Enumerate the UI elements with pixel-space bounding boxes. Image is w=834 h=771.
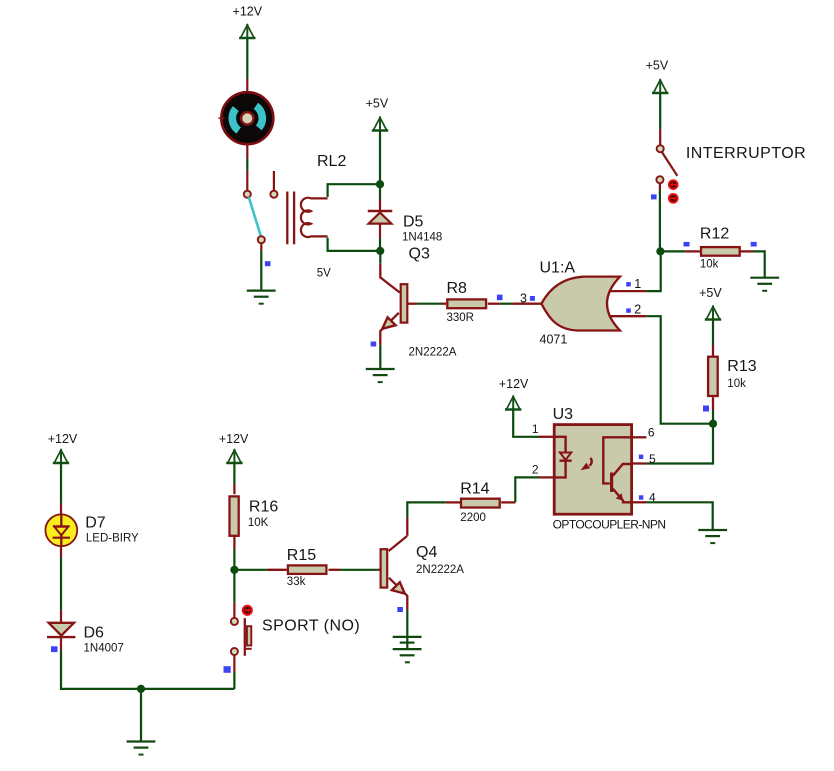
svg-text:+12V: +12V: [233, 5, 263, 19]
resistor R12: [701, 247, 740, 256]
wire junction to R12: [660, 250, 685, 252]
wire opto pin2 stub: [539, 476, 554, 478]
resistor R16: [230, 496, 239, 535]
button SPORT actuator (double arrow): [243, 606, 252, 615]
wire +12V to opto pin1: [513, 410, 539, 437]
blue marker (Q3 emitter): [371, 342, 377, 347]
resistor R15: [288, 565, 327, 574]
ground (R12): [750, 278, 779, 291]
wire R12 left lead: [685, 250, 700, 252]
svg-text:R14: R14: [460, 481, 489, 498]
wire opto pin6 stub: [632, 436, 647, 438]
wire junction to Q3 collector: [379, 251, 381, 264]
wire R16 bottom lead: [233, 536, 235, 549]
svg-text:+5V: +5V: [646, 59, 669, 73]
button SPORT plunger: [245, 618, 252, 656]
optocoupler U3 body: [554, 425, 631, 515]
wire +5V to switch: [659, 93, 661, 129]
svg-text:+12V: +12V: [219, 432, 249, 446]
opto emitter arrow: [616, 493, 624, 500]
svg-text:R8: R8: [447, 280, 468, 297]
blue marker (pin 1): [626, 282, 631, 286]
relay switch common contact: [244, 191, 251, 198]
svg-text:D5: D5: [403, 213, 424, 230]
svg-text:2N2222A: 2N2222A: [416, 564, 464, 576]
button SPORT top contact: [231, 618, 238, 625]
svg-text:1N4007: 1N4007: [84, 643, 124, 655]
wire R15 right lead: [329, 569, 341, 571]
ground (Q4 emitter, doubled): [393, 637, 422, 662]
svg-text:+5V: +5V: [699, 286, 722, 300]
wire gate output stub: [513, 303, 542, 305]
wire gate pin2 stub: [609, 315, 647, 317]
resistor R14: [461, 499, 500, 508]
svg-text:+5V: +5V: [366, 97, 389, 111]
svg-text:SPORT (NO): SPORT (NO): [262, 617, 360, 634]
wire Q3 emitter to ground: [379, 345, 381, 369]
junction (bottom rail / ground): [137, 685, 145, 693]
wire +12V to R16: [233, 463, 235, 484]
blue marker (pin 2): [626, 308, 631, 312]
wire R16 to junction: [233, 549, 235, 570]
wire motor bottom pin stub: [246, 144, 248, 159]
ground (switch branch): [247, 291, 276, 304]
wire R8 to gate output: [500, 303, 513, 305]
transistor Q4 body: [381, 549, 388, 587]
wire D6 cathode stub: [60, 637, 62, 650]
motor M (fan symbol): [219, 92, 274, 144]
wire button top pin stub: [233, 602, 235, 618]
blue marker (R12 right): [751, 242, 757, 247]
svg-text:D6: D6: [84, 625, 105, 642]
wire R14 right lead: [501, 501, 515, 503]
relay switch blade (cyan): [249, 197, 261, 236]
junction (R13 / gate pin2 / opto pin5): [709, 420, 717, 428]
wire switch to ground: [260, 250, 262, 290]
svg-text:2: 2: [634, 302, 641, 316]
button SPORT bottom contact: [231, 648, 238, 655]
wire gate pin1 to R12 junction: [646, 255, 661, 292]
wire D5 anode stub: [379, 224, 381, 239]
wire button to bottom rail: [233, 672, 235, 689]
wire +12V to motor: [246, 38, 248, 79]
blue marker (pin 3): [530, 296, 535, 301]
wire R12 to ground: [753, 251, 765, 277]
wire +12V to D7: [60, 463, 62, 504]
wire Q3 base to R8: [417, 303, 442, 305]
wire gate pin2 down to R13 junction: [646, 316, 713, 424]
blue marker (button bottom): [224, 666, 231, 673]
blue marker (D6): [51, 646, 58, 652]
transistor Q3 emitter arrow: [382, 317, 395, 329]
blue marker (interruptor): [651, 194, 657, 199]
svg-text:1: 1: [634, 277, 641, 291]
ground (Q3 emitter): [366, 369, 395, 382]
svg-text:2: 2: [532, 463, 539, 477]
wire R14 left lead: [446, 501, 460, 503]
wire D7 anode stub: [60, 504, 62, 514]
transistor Q4 collector lead: [389, 517, 408, 551]
svg-text:10K: 10K: [248, 517, 269, 529]
svg-text:D7: D7: [85, 514, 106, 531]
wire switch common pin stub: [246, 171, 248, 191]
wire motor to switch: [246, 159, 248, 171]
wire switch to R12 junction: [659, 191, 661, 252]
transistor Q3 emitter lead with arrow: [380, 313, 399, 345]
wire Q4 collector to R14: [407, 502, 446, 517]
svg-text:330R: 330R: [447, 312, 475, 324]
blue marker (pin 4): [639, 495, 643, 499]
svg-text:1N4148: 1N4148: [402, 232, 442, 244]
junction (coil top / +5V): [376, 180, 384, 188]
svg-text:4071: 4071: [540, 333, 568, 347]
wire Q3 base stub: [407, 303, 417, 305]
opto collector lead: [613, 464, 632, 476]
wire R16 junction to R15: [234, 569, 267, 571]
svg-text:RL2: RL2: [317, 153, 346, 170]
svg-text:2N2222A: 2N2222A: [409, 347, 457, 359]
svg-text:10k: 10k: [727, 378, 746, 390]
svg-text:1: 1: [532, 422, 539, 436]
svg-text:Q3: Q3: [409, 246, 430, 263]
wire D7 to D6: [60, 557, 62, 610]
svg-text:Q4: Q4: [416, 544, 437, 561]
relay switch NC pin stub: [273, 171, 275, 191]
svg-text:U3: U3: [553, 406, 574, 423]
switch INTERRUPTOR blade: [662, 152, 678, 176]
svg-text:3: 3: [520, 292, 527, 306]
svg-text:R12: R12: [700, 226, 729, 243]
ground (bottom rail): [127, 742, 156, 755]
wire opto pin5 stub: [632, 462, 647, 464]
blue marker (R8 right): [497, 295, 503, 301]
opto light arrow: [581, 458, 592, 470]
wire opto pin4 stub: [632, 501, 647, 503]
wire R8 left lead: [442, 303, 447, 305]
svg-text:5V: 5V: [317, 268, 331, 280]
opto emitter lead with arrow: [613, 489, 632, 503]
wire R8 right lead: [488, 303, 500, 305]
svg-text:R15: R15: [287, 547, 316, 564]
wire D7 cathode stub: [60, 546, 62, 557]
svg-text:5: 5: [649, 452, 656, 466]
wire R13 bottom lead: [712, 397, 714, 410]
svg-text:6: 6: [648, 426, 655, 440]
wire R12 right lead: [741, 250, 753, 252]
svg-text:+12V: +12V: [499, 377, 529, 391]
wire +5V down to junction: [379, 131, 381, 200]
wire switch bottom pin stub: [659, 183, 661, 191]
transistor Q4 emitter arrow: [392, 582, 405, 593]
svg-text:U1:A: U1:A: [540, 260, 576, 277]
ground (opto pin4): [698, 530, 727, 543]
wire opto pin1 stub: [539, 436, 554, 438]
resistor R13: [708, 357, 718, 396]
LED D7 (LED-BIRY): [45, 514, 77, 546]
switch actuator button upper (left arrow): [669, 180, 678, 189]
wire R16 top lead: [233, 484, 235, 494]
opto internal LED: [560, 453, 572, 461]
svg-text:OPTOCOUPLER-NPN: OPTOCOUPLER-NPN: [553, 518, 666, 532]
wire Q4 base stub: [378, 569, 381, 571]
relay switch NO contact: [258, 236, 265, 243]
opto internal LED wiring: [554, 437, 566, 478]
wire coil top to +5V rail: [328, 184, 380, 197]
svg-text:+12V: +12V: [48, 432, 78, 446]
wire R13 top lead: [712, 346, 714, 356]
blue marker (Q4 emitter): [397, 607, 403, 612]
wire junction to ground: [140, 689, 142, 742]
wire R13 to junction: [712, 410, 714, 424]
junction (D5 / coil bottom / Q3 collector): [376, 247, 384, 255]
blue marker (pin 5): [639, 455, 643, 459]
wire R15 to Q4 base: [340, 569, 378, 571]
wire junction down to opto pin5: [646, 424, 713, 464]
blue marker (switch wire): [265, 261, 271, 266]
relay switch NC contact: [270, 191, 277, 198]
transistor Q4 emitter lead: [389, 578, 407, 610]
wire D6 to bottom rail: [61, 650, 234, 689]
wire coil bottom to node: [328, 238, 380, 251]
diode D6 1N4007: [47, 623, 75, 637]
transistor Q3 body: [401, 284, 408, 322]
relay RL2 coil: [301, 198, 328, 237]
svg-text:R16: R16: [249, 499, 278, 516]
blue marker (R12 left): [684, 242, 690, 247]
transistor Q3 collector lead: [380, 264, 399, 293]
relay RL2 coil core bars: [286, 192, 288, 245]
svg-text:2200: 2200: [460, 512, 486, 524]
wire +5V to R13: [712, 320, 714, 346]
wire opto pin4 to ground: [646, 502, 712, 530]
opto internal base wiring (pin 6): [603, 437, 632, 483]
wire switch top pin stub: [659, 129, 661, 145]
svg-text:33k: 33k: [287, 576, 306, 588]
svg-text:INTERRUPTOR: INTERRUPTOR: [686, 145, 806, 162]
wire gate pin1 stub: [609, 290, 647, 292]
switch INTERRUPTOR top contact: [657, 145, 664, 152]
resistor R8: [447, 299, 486, 308]
opto phototransistor bar: [610, 473, 613, 493]
svg-text:10k: 10k: [700, 258, 719, 270]
wire motor top pin stub: [246, 79, 248, 94]
blue marker (R13 bottom): [703, 406, 709, 412]
junction (R16 / R15 / button): [230, 566, 238, 574]
wire junction to button: [233, 570, 235, 603]
wire switch NO pin stub: [260, 243, 262, 251]
wire D6 anode stub: [60, 610, 62, 622]
svg-text:R13: R13: [727, 358, 756, 375]
switch INTERRUPTOR bottom contact: [656, 176, 663, 183]
wire D5 cathode stub: [379, 200, 381, 212]
junction (switch / gate pin1 / R12): [656, 247, 664, 255]
wire Q4 emitter to ground: [406, 610, 408, 650]
wire D5 to junction: [379, 238, 381, 251]
diode D5 1N4148: [368, 211, 393, 224]
wire R15 left lead: [267, 569, 287, 571]
wire R14 to opto pin2: [515, 477, 539, 502]
svg-text:LED-BIRY: LED-BIRY: [86, 532, 139, 544]
wire button bottom pin stub: [233, 655, 235, 672]
op-amp U1:A OR gate 4071 (mirrored, output left): [541, 277, 620, 331]
switch actuator button lower (right arrow): [669, 194, 678, 203]
